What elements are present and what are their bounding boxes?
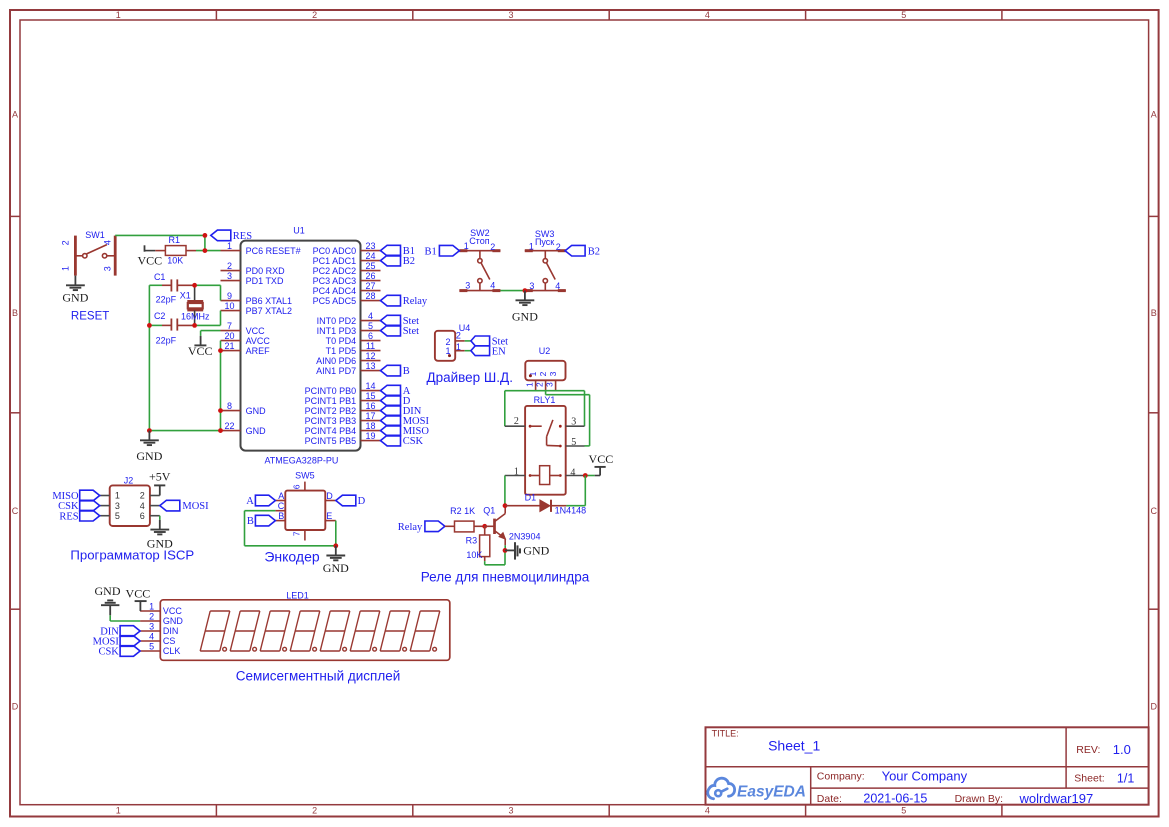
svg-text:3: 3 <box>115 501 120 511</box>
svg-text:Драйвер Ш.Д.: Драйвер Ш.Д. <box>426 370 513 385</box>
svg-text:CS: CS <box>163 636 176 646</box>
svg-text:22pF: 22pF <box>156 294 177 304</box>
svg-text:PCINT0 PB0: PCINT0 PB0 <box>305 386 357 396</box>
svg-text:GND: GND <box>163 616 184 626</box>
svg-text:Sheet_1: Sheet_1 <box>768 737 820 753</box>
svg-text:5: 5 <box>901 806 906 816</box>
svg-text:16: 16 <box>365 401 375 411</box>
svg-text:1: 1 <box>529 242 534 252</box>
svg-text:Relay: Relay <box>403 296 428 307</box>
svg-text:3: 3 <box>544 382 554 387</box>
svg-text:D: D <box>1150 702 1157 712</box>
svg-text:D: D <box>326 491 333 501</box>
svg-text:1: 1 <box>116 10 121 20</box>
svg-text:DIN: DIN <box>163 626 179 636</box>
svg-text:4: 4 <box>102 240 112 245</box>
svg-text:X1: X1 <box>180 290 191 300</box>
svg-text:3: 3 <box>508 10 513 20</box>
svg-text:18: 18 <box>365 421 375 431</box>
svg-text:2: 2 <box>140 491 145 501</box>
svg-text:U1: U1 <box>293 226 305 236</box>
svg-text:1: 1 <box>524 382 534 387</box>
svg-text:1: 1 <box>61 266 71 271</box>
svg-text:Stet: Stet <box>403 326 419 337</box>
svg-text:PD1 TXD: PD1 TXD <box>246 276 284 286</box>
svg-text:C: C <box>12 506 19 516</box>
svg-text:Your Company: Your Company <box>882 769 968 784</box>
svg-text:7: 7 <box>292 531 302 536</box>
svg-text:4: 4 <box>149 632 154 642</box>
svg-text:25: 25 <box>365 261 375 271</box>
svg-text:5: 5 <box>571 437 576 448</box>
svg-text:Date:: Date: <box>817 793 842 805</box>
svg-text:GND: GND <box>512 309 538 323</box>
svg-text:A: A <box>1151 110 1157 120</box>
svg-text:PCINT1 PB1: PCINT1 PB1 <box>305 396 357 406</box>
svg-text:6: 6 <box>368 331 373 341</box>
svg-text:4: 4 <box>555 281 560 291</box>
svg-text:AVCC: AVCC <box>246 336 271 346</box>
svg-text:21: 21 <box>224 341 234 351</box>
svg-text:INT0 PD2: INT0 PD2 <box>317 316 357 326</box>
svg-text:VCC: VCC <box>163 606 183 616</box>
svg-text:Пуск: Пуск <box>535 237 554 247</box>
svg-text:T1 PD5: T1 PD5 <box>326 346 357 356</box>
svg-text:SW1: SW1 <box>85 230 105 240</box>
svg-text:22pF: 22pF <box>156 336 177 346</box>
svg-text:RLY1: RLY1 <box>534 395 556 405</box>
svg-text:B2: B2 <box>588 246 600 257</box>
svg-text:VCC: VCC <box>126 586 151 600</box>
svg-text:SW5: SW5 <box>295 471 315 481</box>
svg-text:4: 4 <box>570 468 575 479</box>
svg-text:A: A <box>246 496 254 507</box>
svg-text:2: 2 <box>61 240 71 245</box>
svg-text:3: 3 <box>149 622 154 632</box>
svg-text:B: B <box>1151 308 1157 318</box>
svg-text:27: 27 <box>365 281 375 291</box>
svg-text:11: 11 <box>366 341 375 351</box>
svg-text:RESET: RESET <box>71 311 109 323</box>
svg-text:4: 4 <box>140 501 145 511</box>
svg-text:2: 2 <box>227 261 232 271</box>
svg-text:PC2 ADC2: PC2 ADC2 <box>313 266 357 276</box>
svg-text:10K: 10K <box>167 256 183 266</box>
svg-text:+5V: +5V <box>149 470 171 484</box>
svg-text:C1: C1 <box>154 272 166 282</box>
svg-text:3: 3 <box>529 281 534 291</box>
svg-text:3: 3 <box>571 417 576 428</box>
svg-text:CLK: CLK <box>163 646 181 656</box>
svg-text:1.0: 1.0 <box>1113 742 1131 757</box>
svg-text:VCC: VCC <box>589 452 614 466</box>
svg-text:2: 2 <box>312 806 317 816</box>
svg-text:C: C <box>1150 506 1157 516</box>
svg-text:14: 14 <box>365 381 375 391</box>
svg-text:C: C <box>278 501 285 511</box>
svg-text:MOSI: MOSI <box>182 501 209 512</box>
svg-text:U2: U2 <box>539 346 551 356</box>
svg-text:1: 1 <box>115 491 120 501</box>
svg-text:6: 6 <box>292 484 302 489</box>
svg-text:1: 1 <box>227 241 232 251</box>
svg-text:GND: GND <box>323 561 349 575</box>
svg-text:4: 4 <box>705 806 710 816</box>
svg-text:17: 17 <box>365 411 375 421</box>
svg-text:Программатор ISCP: Программатор ISCP <box>70 548 194 563</box>
svg-text:C2: C2 <box>154 311 166 321</box>
svg-text:1: 1 <box>514 466 519 477</box>
svg-text:1/1: 1/1 <box>1117 771 1134 785</box>
svg-text:8: 8 <box>227 401 232 411</box>
svg-text:28: 28 <box>365 291 375 301</box>
svg-text:CSK: CSK <box>403 436 424 447</box>
svg-text:AREF: AREF <box>246 346 271 356</box>
svg-text:PC6 RESET#: PC6 RESET# <box>246 246 301 256</box>
svg-text:3: 3 <box>227 271 232 281</box>
svg-text:3: 3 <box>548 371 558 376</box>
svg-text:2: 2 <box>149 612 154 622</box>
svg-text:19: 19 <box>365 431 375 441</box>
svg-text:CSK: CSK <box>98 647 119 658</box>
svg-text:GND: GND <box>95 584 121 598</box>
svg-text:D: D <box>358 496 366 507</box>
svg-text:Sheet:: Sheet: <box>1074 773 1104 785</box>
svg-text:A: A <box>278 491 284 501</box>
svg-text:B: B <box>278 511 284 521</box>
svg-text:EasyEDA: EasyEDA <box>737 783 806 800</box>
svg-text:PC1 ADC1: PC1 ADC1 <box>313 256 357 266</box>
svg-text:J2: J2 <box>124 475 134 485</box>
svg-text:6: 6 <box>140 511 145 521</box>
svg-text:VCC: VCC <box>137 254 162 268</box>
svg-text:Стоп: Стоп <box>469 236 490 246</box>
svg-text:4: 4 <box>368 311 373 321</box>
svg-text:EN: EN <box>492 346 506 357</box>
svg-text:5: 5 <box>368 321 373 331</box>
svg-text:B2: B2 <box>403 256 415 267</box>
svg-text:3: 3 <box>508 806 513 816</box>
svg-text:AIN1 PD7: AIN1 PD7 <box>316 366 356 376</box>
svg-text:1: 1 <box>464 241 469 251</box>
svg-text:26: 26 <box>365 271 375 281</box>
svg-text:B: B <box>247 516 254 527</box>
svg-text:ATMEGA328P-PU: ATMEGA328P-PU <box>264 456 338 466</box>
svg-text:1N4148: 1N4148 <box>555 506 587 516</box>
svg-text:PCINT4 PB4: PCINT4 PB4 <box>305 426 357 436</box>
svg-text:10: 10 <box>224 301 234 311</box>
svg-text:Company:: Company: <box>817 771 865 783</box>
svg-text:23: 23 <box>365 241 375 251</box>
svg-text:E: E <box>326 511 332 521</box>
svg-text:4: 4 <box>490 281 495 291</box>
svg-text:2: 2 <box>312 10 317 20</box>
svg-text:16MHz: 16MHz <box>181 311 210 321</box>
svg-text:VCC: VCC <box>188 344 213 358</box>
svg-text:VCC: VCC <box>246 326 266 336</box>
svg-text:20: 20 <box>224 331 234 341</box>
svg-text:Drawn By:: Drawn By: <box>955 793 1003 805</box>
svg-text:TITLE:: TITLE: <box>712 729 739 739</box>
svg-text:10K: 10K <box>466 550 482 560</box>
svg-text:RES: RES <box>233 231 252 242</box>
svg-text:PC3 ADC3: PC3 ADC3 <box>313 276 357 286</box>
svg-text:PB6 XTAL1: PB6 XTAL1 <box>246 296 292 306</box>
svg-text:GND: GND <box>136 449 162 463</box>
svg-text:PC5 ADC5: PC5 ADC5 <box>313 296 357 306</box>
svg-text:B: B <box>12 308 18 318</box>
svg-text:PC4 ADC4: PC4 ADC4 <box>313 286 357 296</box>
svg-text:15: 15 <box>365 391 375 401</box>
svg-text:GND: GND <box>246 426 267 436</box>
svg-text:Q1: Q1 <box>483 506 495 516</box>
svg-text:2: 2 <box>456 331 461 341</box>
svg-text:PB7 XTAL2: PB7 XTAL2 <box>246 306 292 316</box>
svg-text:R2 1K: R2 1K <box>450 506 475 516</box>
svg-text:4: 4 <box>705 10 710 20</box>
svg-text:GND: GND <box>62 291 88 305</box>
svg-text:PCINT2 PB2: PCINT2 PB2 <box>305 406 357 416</box>
svg-text:RES: RES <box>59 511 78 522</box>
svg-text:GND: GND <box>246 406 267 416</box>
svg-text:22: 22 <box>224 421 234 431</box>
svg-text:D1: D1 <box>525 493 537 503</box>
svg-text:REV:: REV: <box>1076 744 1100 756</box>
svg-text:PC0 ADC0: PC0 ADC0 <box>313 246 357 256</box>
svg-text:T0 PD4: T0 PD4 <box>326 336 357 346</box>
svg-text:Relay: Relay <box>398 522 423 533</box>
svg-text:A: A <box>12 110 18 120</box>
svg-text:PD0 RXD: PD0 RXD <box>246 266 286 276</box>
svg-text:Реле для пневмоцилиндра: Реле для пневмоцилиндра <box>421 569 590 584</box>
svg-text:D: D <box>12 702 19 712</box>
svg-text:LED1: LED1 <box>286 590 309 600</box>
svg-text:2021-06-15: 2021-06-15 <box>863 792 927 806</box>
svg-text:5: 5 <box>115 511 120 521</box>
svg-text:3: 3 <box>102 266 112 271</box>
svg-text:2: 2 <box>556 242 561 252</box>
svg-text:AIN0 PD6: AIN0 PD6 <box>316 356 356 366</box>
svg-text:2: 2 <box>490 242 495 252</box>
svg-text:12: 12 <box>365 351 375 361</box>
svg-text:INT1 PD3: INT1 PD3 <box>317 326 357 336</box>
svg-text:7: 7 <box>227 321 232 331</box>
svg-text:R3: R3 <box>466 535 478 545</box>
svg-text:9: 9 <box>227 291 232 301</box>
svg-text:2N3904: 2N3904 <box>509 531 541 541</box>
svg-text:1: 1 <box>149 602 154 612</box>
svg-text:2: 2 <box>514 416 519 427</box>
svg-text:2: 2 <box>538 371 548 376</box>
svg-text:GND: GND <box>523 544 549 558</box>
svg-text:13: 13 <box>365 361 375 371</box>
svg-text:24: 24 <box>365 251 375 261</box>
svg-text:wolrdwar197: wolrdwar197 <box>1019 791 1094 806</box>
svg-text:B: B <box>403 366 410 377</box>
svg-text:R1: R1 <box>169 235 181 245</box>
svg-text:1: 1 <box>116 806 121 816</box>
svg-text:5: 5 <box>901 10 906 20</box>
svg-text:B1: B1 <box>425 246 437 257</box>
svg-text:Энкодер: Энкодер <box>264 548 320 564</box>
svg-text:5: 5 <box>149 642 154 652</box>
svg-text:3: 3 <box>465 281 470 291</box>
svg-text:PCINT3 PB3: PCINT3 PB3 <box>305 416 357 426</box>
svg-text:2: 2 <box>534 382 544 387</box>
svg-text:Семисегментный дисплей: Семисегментный дисплей <box>236 668 401 683</box>
svg-text:PCINT5 PB5: PCINT5 PB5 <box>305 436 357 446</box>
